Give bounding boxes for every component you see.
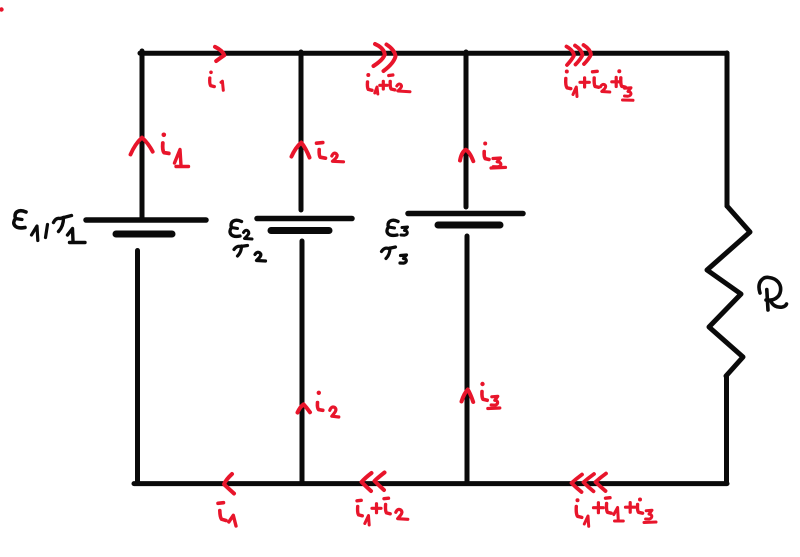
label R xyxy=(759,277,786,310)
wire branch 2 upper xyxy=(299,52,304,210)
current arrow i3 up, branch 3 lower xyxy=(462,390,474,403)
label i3 branch 3 lower xyxy=(480,382,500,409)
current arrows i1+i2 on top wire xyxy=(374,44,396,71)
wire left lower xyxy=(135,251,140,484)
wire branch 2 lower xyxy=(300,241,305,483)
label r2 xyxy=(234,246,266,262)
label i1+i2 top xyxy=(366,73,410,94)
label i1+i2+i3 top xyxy=(565,69,633,100)
red speck top-left corner xyxy=(0,7,4,11)
wire top xyxy=(140,51,727,56)
label i1 top xyxy=(209,71,223,91)
label E3 xyxy=(387,220,408,235)
label i2 branch 2 upper xyxy=(317,143,344,162)
current arrow i1 on bottom wire xyxy=(224,474,234,494)
wire branch 3 lower xyxy=(465,236,470,483)
current arrows i1+i2+i3 on top wire xyxy=(567,45,592,65)
current arrow i3 up, branch 3 xyxy=(460,150,473,162)
battery B1 (E1,r1) plates xyxy=(86,220,206,234)
label r3 xyxy=(382,247,407,263)
label E1 | r1 xyxy=(14,211,85,243)
wire bottom xyxy=(134,481,727,486)
label i1 left branch xyxy=(162,133,189,167)
label E2 xyxy=(230,220,252,239)
current arrow i2 up, branch 2 xyxy=(292,143,310,158)
current arrows i1+i2+i3 on bottom wire xyxy=(572,474,607,493)
label i1+i2+i3 bottom xyxy=(576,498,657,527)
label i3 branch 3 upper xyxy=(483,142,505,169)
current arrow i1 on top wire xyxy=(215,47,224,61)
wire right lower xyxy=(724,376,729,483)
current arrows i1+i2 on bottom wire xyxy=(362,473,385,492)
wire branch 3 upper xyxy=(464,52,469,207)
label i1+i2 bottom xyxy=(357,498,408,525)
battery B2 (E2,r2) plates xyxy=(257,219,352,231)
battery B3 (E3,r3) plates xyxy=(408,214,523,226)
current arrow i1 up, left branch xyxy=(131,138,153,155)
label i2 branch 2 lower xyxy=(317,391,339,417)
wire left upper xyxy=(140,51,145,219)
current arrow i2 up, branch 2 lower xyxy=(298,404,311,412)
label i1 bottom xyxy=(218,503,236,526)
resistor R zigzag xyxy=(707,206,750,376)
wire right upper xyxy=(725,53,730,206)
